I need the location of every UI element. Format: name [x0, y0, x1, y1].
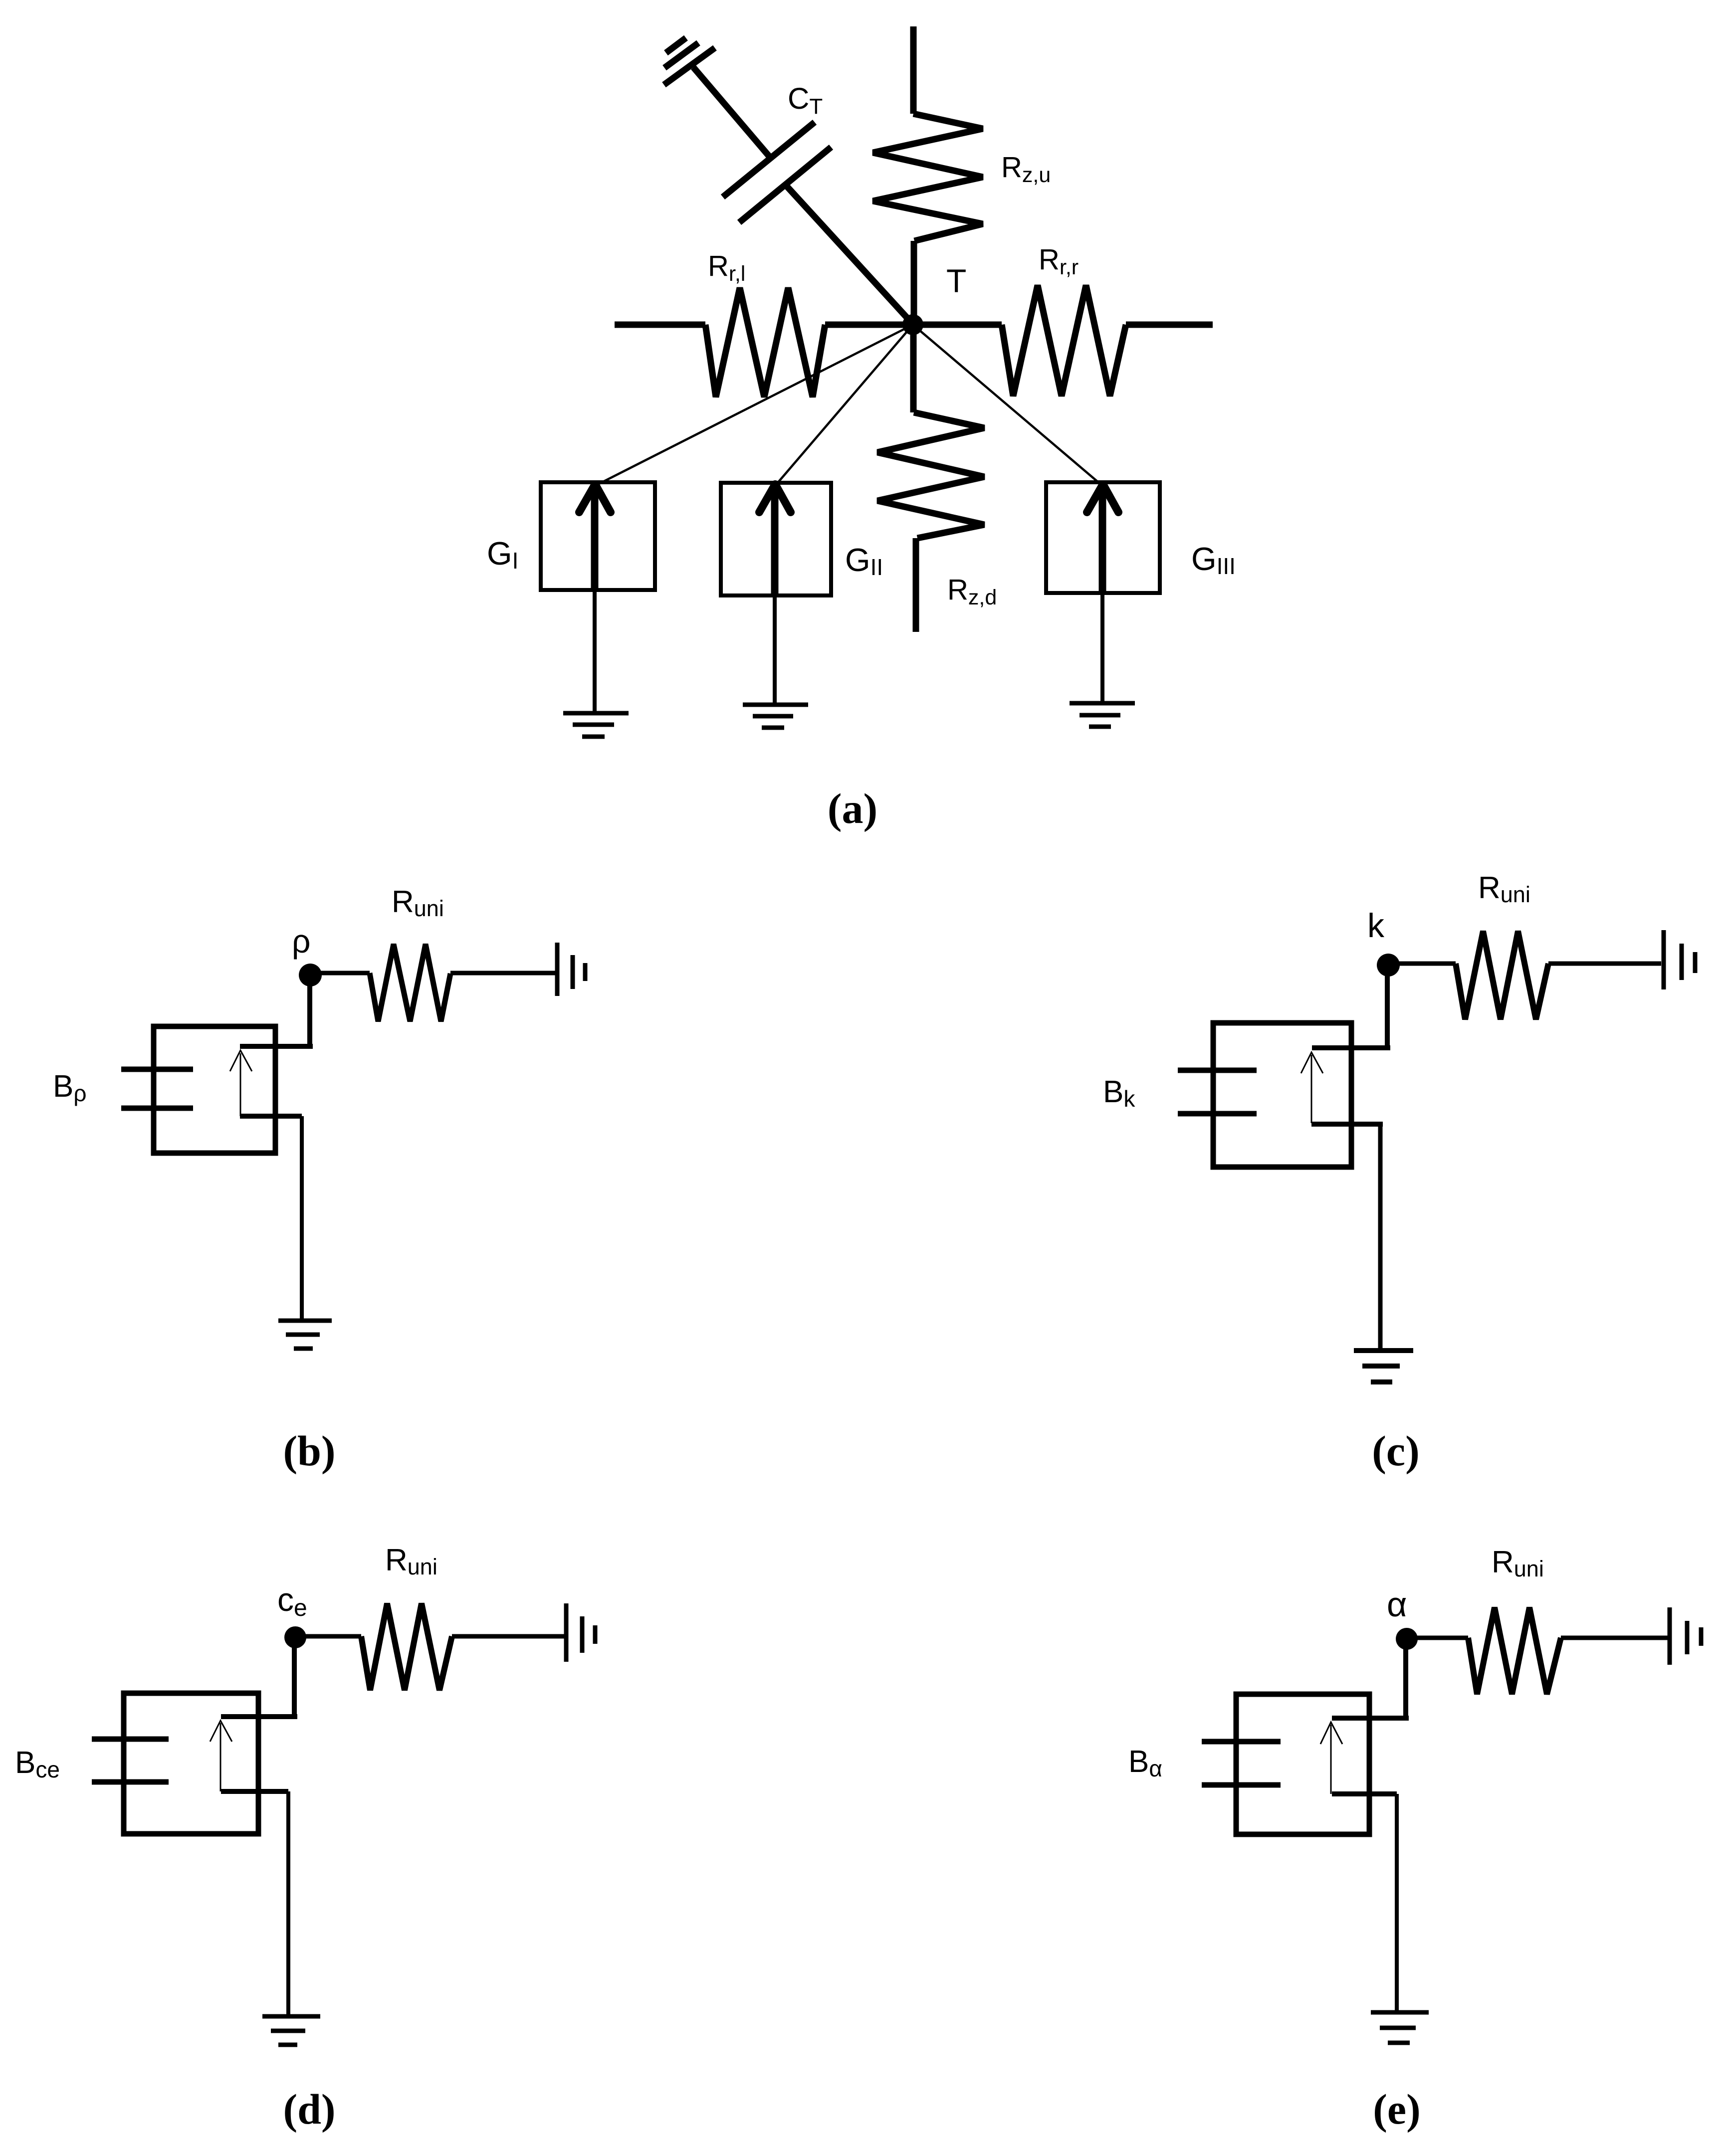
- arrow Bk: [1311, 1055, 1312, 1123]
- input line Brho lower: [121, 1106, 193, 1111]
- wire Rz,d bottom end: [913, 538, 919, 632]
- svg-text:(c): (c): [1372, 1427, 1419, 1475]
- wire thin node T to GI: [595, 325, 913, 486]
- source Bk box: [1213, 1023, 1351, 1167]
- ground (d): [262, 2016, 320, 2045]
- input line Balpha upper: [1202, 1739, 1281, 1745]
- current source GIII arrow: [1099, 491, 1106, 591]
- wire Runi to battery (d): [452, 1634, 564, 1639]
- battery (d): [566, 1603, 595, 1662]
- wire thin node T to GII: [775, 325, 913, 486]
- wire node T to Rr,r: [913, 322, 1002, 328]
- wire node k down to source Bk: [1385, 965, 1390, 1048]
- wire capacitor to node T: [785, 185, 913, 325]
- svg-text:(e): (e): [1373, 2085, 1420, 2133]
- wire Brho bottom out: [240, 1114, 302, 1119]
- wire into Bk box: [1312, 1045, 1390, 1050]
- wire node alpha to Runi: [1407, 1636, 1468, 1640]
- node k: [1377, 954, 1400, 977]
- ground GI: [563, 713, 629, 737]
- wire GII to ground: [773, 593, 777, 705]
- current source GII box: [721, 483, 831, 595]
- svg-text:(b): (b): [283, 1427, 335, 1475]
- source Balpha box: [1236, 1694, 1369, 1834]
- svg-text:(d): (d): [283, 2085, 335, 2133]
- ground GII: [743, 705, 808, 728]
- resistor Rr,r: [1002, 285, 1126, 396]
- node rho: [299, 964, 322, 986]
- input line Bce upper: [92, 1737, 169, 1742]
- wire left end: [615, 322, 705, 328]
- wire node k to Runi: [1388, 962, 1456, 966]
- arrow Bce: [220, 1723, 221, 1791]
- input line Brho upper: [121, 1067, 193, 1072]
- wire GIII to ground: [1100, 591, 1104, 702]
- node T junction dot: [902, 314, 923, 335]
- ground (e): [1371, 2012, 1429, 2043]
- svg-text:T: T: [946, 262, 966, 299]
- resistor Rz,d: [877, 412, 984, 538]
- arrow Brho: [240, 1053, 241, 1116]
- battery (b): [557, 943, 585, 996]
- wire right end: [1126, 322, 1213, 328]
- wire node alpha down to source Balpha: [1403, 1639, 1408, 1718]
- ground of CT (slanted): [664, 38, 715, 85]
- svg-text:ρ: ρ: [292, 923, 311, 960]
- resistor Rr,l: [705, 288, 825, 397]
- ground (b): [278, 1321, 332, 1349]
- battery (c): [1664, 930, 1695, 989]
- wire node T down: [910, 325, 917, 412]
- input line Bk lower: [1178, 1111, 1257, 1117]
- resistor Runi (e): [1468, 1607, 1561, 1694]
- node alpha: [1396, 1628, 1418, 1650]
- wire node ce to Runi: [295, 1634, 361, 1639]
- arrow Balpha: [1330, 1725, 1332, 1794]
- wire Balpha to ground: [1395, 1794, 1399, 2012]
- input line Balpha lower: [1202, 1782, 1281, 1788]
- wire Bk bottom out: [1311, 1122, 1383, 1127]
- wire CT ground to capacitor: [693, 67, 771, 158]
- wire into Brho box: [240, 1044, 313, 1049]
- resistor Runi (b): [370, 944, 450, 1021]
- ground (c): [1354, 1351, 1413, 1382]
- resistor Rz,u: [873, 114, 983, 241]
- wire top vertical: [910, 26, 917, 114]
- wire Balpha bottom out: [1332, 1791, 1397, 1796]
- wire into Bce box: [221, 1714, 297, 1719]
- source Bce box: [124, 1693, 258, 1834]
- svg-text:(a): (a): [828, 784, 877, 832]
- wire node rho down to source Brho: [307, 974, 312, 1046]
- current source GI box: [541, 482, 655, 590]
- wire Bce bottom out: [221, 1789, 288, 1794]
- current source GII arrow: [771, 491, 779, 593]
- input line Bce lower: [92, 1779, 169, 1785]
- input line Bk upper: [1178, 1068, 1257, 1073]
- wire Runi to battery (e): [1561, 1636, 1668, 1640]
- wire thin node T to GIII: [913, 325, 1102, 486]
- wire node ce down to source Bce: [292, 1637, 297, 1717]
- capacitor CT: [723, 122, 831, 222]
- wire node rho to Runi: [310, 971, 370, 976]
- current source GI arrow: [591, 491, 599, 590]
- resistor Runi (c): [1456, 931, 1548, 1019]
- wire Rz,u to node T: [911, 241, 917, 325]
- wire GI to ground: [593, 590, 597, 713]
- resistor Runi (d): [361, 1603, 452, 1690]
- wire Runi to battery: [450, 971, 555, 976]
- wire Brho to ground: [300, 1116, 304, 1321]
- wire Runi to battery (c): [1548, 962, 1661, 966]
- svg-text:α: α: [1387, 1585, 1407, 1624]
- wire Bk to ground: [1378, 1124, 1383, 1350]
- node ce: [284, 1626, 306, 1648]
- battery (e): [1670, 1607, 1701, 1665]
- current source GIII box: [1046, 482, 1160, 593]
- wire Rr,l to node T: [825, 322, 913, 328]
- wire Bce to ground: [286, 1791, 290, 2016]
- ground GIII: [1070, 703, 1135, 727]
- wire into Balpha box: [1332, 1716, 1409, 1721]
- source Brho box: [154, 1026, 275, 1153]
- svg-text:k: k: [1367, 907, 1385, 945]
